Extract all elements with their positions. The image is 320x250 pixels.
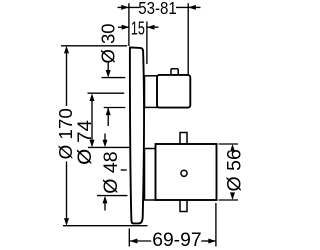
svg-text:Ø 56: Ø 56 <box>224 149 246 191</box>
svg-text:15: 15 <box>131 19 145 39</box>
dimension O74 <box>75 93 96 164</box>
svg-text:Ø 48: Ø 48 <box>100 151 122 193</box>
escutcheon plate side profile <box>130 47 144 223</box>
svg-text:69-97: 69-97 <box>152 230 201 250</box>
extension line left (plate front at bottom) <box>128 229 130 247</box>
extension lines O30 O74 O48 (pass under plate) <box>88 78 131 196</box>
box (volume handle side view) <box>156 144 217 200</box>
dimension O48 <box>100 134 122 211</box>
dimension 69-97 <box>129 203 216 250</box>
dimension 53-81 top <box>118 0 201 76</box>
knob (thermostat handle) <box>157 75 190 108</box>
center screw circle <box>181 170 187 176</box>
extension line right x=146.9 <box>146 22 148 65</box>
box top tab <box>180 133 187 146</box>
extension line right (knob face) <box>187 3 189 76</box>
box bottom tab <box>180 199 187 212</box>
svg-text:Ø 30: Ø 30 <box>97 23 118 63</box>
box neck <box>145 149 156 201</box>
svg-text:Ø 170: Ø 170 <box>55 108 76 159</box>
dimension O170 <box>55 46 147 226</box>
dimension O30 <box>97 23 118 126</box>
knob stem <box>145 76 158 108</box>
dimension 15 <box>118 19 159 64</box>
svg-text:53-81: 53-81 <box>138 0 177 18</box>
dimension O56 <box>219 144 246 200</box>
knob nub <box>171 69 178 76</box>
extension line left (wall/plate front) <box>128 3 130 46</box>
extension line right (box face) <box>215 203 217 247</box>
svg-text:Ø 74: Ø 74 <box>75 119 96 164</box>
